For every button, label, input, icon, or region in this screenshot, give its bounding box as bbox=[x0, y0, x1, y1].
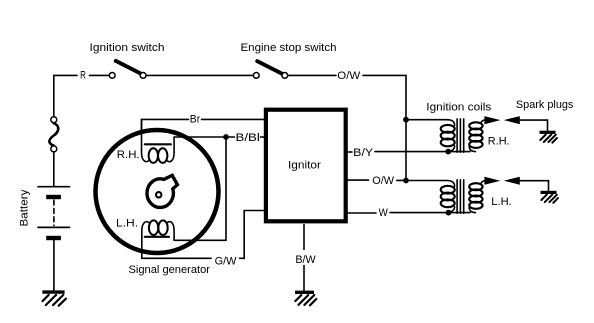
wire engine stop switch to O/W bbox=[288, 74, 336, 76]
svg-text:B/W: B/W bbox=[295, 254, 316, 266]
wire B/Bl label to ignitor box bbox=[261, 136, 266, 138]
junction dot bus to LH coil bbox=[403, 178, 409, 184]
svg-text:Engine stop switch: Engine stop switch bbox=[241, 42, 337, 54]
fuse bbox=[49, 117, 58, 152]
wire fuse to battery bbox=[53, 152, 55, 186]
wire W from ignitor bbox=[346, 212, 376, 214]
junction dot B/Bl bbox=[223, 134, 229, 140]
wire top-left corner from battery to R bbox=[54, 75, 77, 116]
engine stop switch bbox=[253, 61, 287, 78]
ground below ignitor bbox=[295, 292, 316, 305]
pickup coil LH bbox=[142, 220, 174, 258]
wire ignition switch to engine stop switch bbox=[147, 74, 253, 76]
wire spark plug RH to ground bbox=[520, 120, 548, 131]
svg-text:Ignitor: Ignitor bbox=[288, 159, 321, 171]
wire B/W from ignitor bottom bbox=[303, 225, 305, 291]
svg-text:R: R bbox=[80, 70, 86, 82]
svg-text:R.H.: R.H. bbox=[488, 135, 510, 147]
wire O/W from ignitor bbox=[346, 179, 369, 181]
svg-text:Spark plugs: Spark plugs bbox=[516, 99, 574, 111]
svg-text:Ignition coils: Ignition coils bbox=[426, 102, 492, 114]
svg-text:Br: Br bbox=[190, 113, 201, 125]
wire spark plug LH to ground bbox=[520, 181, 549, 191]
wire G/W label to ignitor bottom left bbox=[240, 211, 265, 259]
ignition switch bbox=[109, 61, 146, 78]
svg-text:Battery: Battery bbox=[19, 189, 31, 227]
spark plug gap LH (arrows) bbox=[484, 177, 519, 185]
wire B/Bl dot to label bbox=[229, 136, 235, 138]
wire battery to ground bbox=[53, 240, 55, 290]
wire O/W label to bus junction bbox=[397, 179, 404, 181]
wire B/Y to RH coil bottom bbox=[375, 151, 470, 153]
pickup coil RH bbox=[142, 119, 175, 163]
wire B/Y from ignitor bbox=[346, 151, 352, 153]
svg-text:L.H.: L.H. bbox=[116, 218, 138, 230]
junction dot RH coil bottom bbox=[445, 149, 451, 155]
svg-text:W: W bbox=[379, 207, 389, 219]
wire R to ignition switch bbox=[90, 74, 109, 76]
junction dot bus to RH coil bbox=[403, 117, 409, 123]
svg-text:Signal generator: Signal generator bbox=[129, 264, 211, 276]
junction dot LH coil bottom bbox=[446, 210, 452, 216]
wire G/W from LH pickup bbox=[142, 257, 211, 259]
svg-text:O/W: O/W bbox=[372, 175, 395, 187]
wire bus junction to LH coil primary bbox=[406, 181, 455, 187]
svg-text:B/Bl: B/Bl bbox=[236, 132, 260, 144]
wire B/Bl junction down to LH pickup bbox=[174, 140, 226, 240]
spark plug gap RH (arrows) bbox=[484, 116, 519, 124]
wire Br from RH pickup to ignitor bbox=[142, 119, 189, 130]
battery bbox=[38, 187, 70, 238]
svg-text:B/Y: B/Y bbox=[353, 147, 373, 159]
net B/W label bbox=[293, 250, 317, 266]
svg-text:R.H.: R.H. bbox=[117, 149, 140, 161]
ignitor U1 bbox=[266, 110, 346, 222]
svg-text:L.H.: L.H. bbox=[491, 196, 511, 208]
ground spark plug RH bbox=[540, 132, 558, 142]
ground below battery bbox=[42, 292, 66, 306]
wire RH pickup to B/Bl junction bbox=[174, 136, 223, 138]
svg-text:O/W: O/W bbox=[337, 70, 361, 82]
ignition coil RH (transformer) bbox=[409, 119, 486, 152]
wire bus vertical bbox=[405, 118, 407, 181]
rotor bbox=[147, 175, 177, 207]
signal generator circle bbox=[96, 130, 219, 253]
svg-text:G/W: G/W bbox=[215, 255, 238, 267]
wire Br label to ignitor box bbox=[202, 118, 266, 120]
ground spark plug LH bbox=[541, 192, 559, 202]
wire O/W to bus corner bbox=[363, 75, 406, 118]
wire W to LH coil bottom bbox=[390, 212, 470, 214]
ignition coil LH (transformer) bbox=[441, 180, 486, 213]
svg-text:Ignition switch: Ignition switch bbox=[90, 42, 165, 54]
